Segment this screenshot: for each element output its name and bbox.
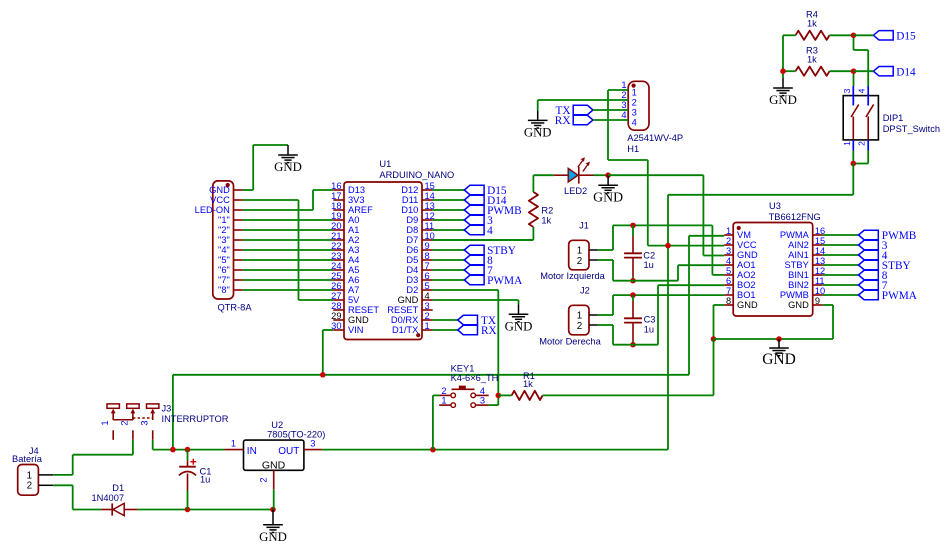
svg-text:D14: D14: [896, 66, 916, 78]
svg-text:INTERRUPTOR: INTERRUPTOR: [162, 414, 229, 424]
node KEY1 junction: [496, 393, 502, 399]
wire: [854, 34, 874, 36]
svg-text:1u: 1u: [644, 325, 654, 335]
connector QTR-8A (J?): [213, 181, 234, 299]
svg-text:27: 27: [331, 291, 341, 301]
svg-text:VM: VM: [737, 230, 751, 240]
node R3-left junction: [780, 68, 786, 74]
svg-text:R2: R2: [541, 206, 553, 216]
net flag D14: [873, 67, 893, 76]
svg-text:25: 25: [331, 271, 341, 281]
svg-text:Motor Derecha: Motor Derecha: [539, 336, 601, 346]
svg-text:4: 4: [857, 88, 867, 93]
svg-text:D15: D15: [896, 30, 916, 42]
net flag 4: [464, 225, 484, 234]
wire: [433, 299, 519, 301]
wire: [613, 280, 678, 282]
svg-text:D10: D10: [401, 205, 418, 215]
wire: [688, 236, 690, 375]
wire: [853, 35, 855, 50]
wire: [830, 70, 854, 72]
wire: [433, 229, 465, 231]
node GND junction: [776, 336, 782, 342]
svg-text:2: 2: [577, 321, 582, 332]
svg-text:28: 28: [331, 301, 341, 311]
svg-text:RESET: RESET: [387, 305, 418, 315]
wire: [243, 249, 334, 251]
svg-text:3: 3: [425, 301, 430, 311]
connector J2: [569, 305, 589, 335]
svg-text:19: 19: [331, 211, 341, 221]
svg-text:VIN: VIN: [348, 325, 364, 335]
wire: [433, 199, 465, 201]
svg-text:8: 8: [425, 251, 430, 261]
svg-text:1k: 1k: [807, 18, 817, 28]
wire: [823, 294, 859, 296]
node VCC junction: [665, 243, 671, 249]
wire: [667, 195, 669, 450]
resistor R4: [796, 31, 830, 40]
svg-text:"7": "7": [218, 275, 230, 285]
svg-text:PWMB: PWMB: [780, 290, 809, 300]
svg-text:4: 4: [621, 110, 626, 120]
node LED2 junction: [605, 172, 611, 178]
ground: [518, 304, 520, 314]
wire: [608, 174, 703, 176]
svg-text:QTR-8A: QTR-8A: [217, 303, 252, 313]
wire: [433, 329, 458, 331]
wire: [433, 209, 465, 211]
node D14 junction: [851, 68, 857, 74]
svg-text:3V3: 3V3: [348, 195, 365, 205]
net flag PWMA: [859, 290, 879, 299]
wire: [152, 440, 154, 450]
svg-text:18: 18: [331, 201, 341, 211]
svg-text:D0/RX: D0/RX: [391, 315, 418, 325]
ground: [782, 78, 784, 88]
resistor R1: [512, 391, 543, 400]
svg-text:1: 1: [726, 226, 731, 236]
wire: [598, 259, 613, 261]
IC U1 ARDUINO_NANO: [344, 182, 422, 340]
svg-text:7805(TO-220): 7805(TO-220): [267, 429, 325, 439]
wire: [243, 259, 334, 261]
svg-text:GND: GND: [209, 185, 230, 195]
svg-text:1k: 1k: [807, 54, 817, 64]
svg-text:"1": "1": [218, 215, 230, 225]
wire: [538, 99, 629, 101]
net flag PWMB: [859, 230, 879, 239]
svg-text:1: 1: [441, 396, 446, 406]
svg-text:A3: A3: [348, 245, 359, 255]
wire: [53, 484, 72, 486]
svg-text:2: 2: [577, 256, 582, 267]
svg-text:D8: D8: [406, 225, 418, 235]
svg-text:H1: H1: [627, 144, 639, 154]
svg-text:1k: 1k: [541, 216, 551, 226]
node VIN junction: [320, 372, 326, 378]
svg-text:3: 3: [726, 246, 731, 256]
net flag TX: [573, 105, 593, 114]
node DIP common junction: [851, 161, 857, 167]
wire: [823, 284, 859, 286]
svg-text:17: 17: [331, 191, 341, 201]
svg-text:3: 3: [310, 439, 315, 449]
wire: [243, 289, 334, 291]
svg-text:STBY: STBY: [785, 260, 809, 270]
svg-text:BIN2: BIN2: [788, 280, 809, 290]
wire: [243, 189, 254, 191]
wire: [489, 404, 499, 406]
wire: [613, 294, 724, 296]
svg-text:"5": "5": [218, 255, 230, 265]
svg-text:C3: C3: [644, 315, 656, 325]
wire: [598, 314, 613, 316]
svg-text:A6: A6: [348, 275, 359, 285]
svg-text:BIN1: BIN1: [788, 270, 809, 280]
svg-text:D11: D11: [402, 195, 418, 205]
svg-text:2: 2: [120, 420, 130, 425]
svg-text:"3": "3": [218, 235, 230, 245]
svg-text:1: 1: [100, 420, 110, 425]
wire: [153, 449, 225, 451]
capacitor C2: [632, 225, 634, 236]
svg-text:A1: A1: [348, 225, 359, 235]
wire VIN rail: [173, 374, 689, 376]
svg-text:7: 7: [726, 286, 731, 296]
switch J3 INTERRUPTOR: [107, 404, 119, 408]
svg-text:ARDUINO_NANO: ARDUINO_NANO: [379, 170, 454, 180]
svg-text:D9: D9: [406, 215, 418, 225]
node D15 junction: [851, 33, 857, 39]
svg-text:D6: D6: [406, 245, 418, 255]
wire: [243, 269, 334, 271]
svg-text:J1: J1: [579, 220, 589, 230]
wire: [533, 174, 553, 176]
svg-text:GND: GND: [348, 315, 369, 325]
svg-text:1: 1: [632, 87, 637, 97]
svg-text:"4": "4": [218, 245, 230, 255]
ground: [287, 145, 289, 155]
svg-text:2: 2: [621, 90, 626, 100]
svg-text:Motor Izquierda: Motor Izquierda: [540, 271, 605, 281]
svg-text:GND: GND: [737, 250, 758, 260]
svg-text:3: 3: [842, 88, 852, 93]
net flag 7: [464, 265, 484, 274]
net flag 3: [464, 215, 484, 224]
wire: [823, 254, 859, 256]
svg-text:D1: D1: [112, 483, 124, 493]
svg-text:GND: GND: [259, 530, 287, 544]
svg-text:4: 4: [726, 256, 731, 266]
svg-text:A2541WV-4P: A2541WV-4P: [627, 133, 683, 143]
svg-text:2: 2: [259, 477, 269, 482]
svg-text:D1/TX: D1/TX: [392, 325, 418, 335]
svg-text:GND: GND: [593, 189, 623, 204]
svg-text:21: 21: [331, 231, 341, 241]
svg-text:24: 24: [331, 261, 341, 271]
svg-text:RX: RX: [481, 325, 497, 337]
wire: [782, 35, 784, 78]
wire: [543, 394, 714, 396]
svg-text:BO1: BO1: [737, 290, 756, 300]
svg-text:D4: D4: [406, 265, 418, 275]
node C3 top junction: [630, 292, 636, 298]
svg-text:5V: 5V: [348, 295, 360, 305]
svg-text:D3: D3: [406, 275, 418, 285]
wire: [867, 151, 869, 164]
net flag 3: [859, 240, 879, 249]
svg-text:RESET: RESET: [348, 305, 379, 315]
wire: [783, 34, 796, 36]
svg-text:D5: D5: [406, 255, 418, 265]
svg-text:3: 3: [621, 100, 626, 110]
svg-text:1u: 1u: [200, 475, 210, 485]
ground: [778, 339, 780, 348]
svg-text:GND: GND: [505, 319, 533, 333]
wire: [532, 175, 534, 192]
svg-text:7: 7: [425, 261, 430, 271]
svg-text:2: 2: [726, 236, 731, 246]
ground: [607, 175, 609, 185]
svg-text:D2: D2: [406, 285, 418, 295]
node junction: [170, 447, 176, 453]
ground: [272, 510, 274, 525]
svg-text:GND: GND: [769, 93, 797, 107]
svg-text:A2: A2: [348, 235, 359, 245]
diode D1: [101, 509, 112, 511]
svg-text:A7: A7: [348, 285, 359, 295]
node 5V-KEY junction: [430, 447, 436, 453]
switch KEY1: [439, 394, 451, 396]
wire: [783, 70, 796, 72]
svg-text:3: 3: [632, 107, 637, 117]
svg-text:"8": "8": [218, 285, 230, 295]
svg-text:16: 16: [331, 181, 341, 191]
wire: [608, 89, 628, 91]
wire: [243, 199, 299, 201]
svg-text:GND: GND: [788, 300, 809, 310]
svg-text:J2: J2: [580, 285, 590, 295]
svg-text:AO2: AO2: [737, 270, 756, 280]
svg-text:4: 4: [487, 225, 493, 237]
svg-text:1k: 1k: [523, 379, 533, 389]
svg-text:3: 3: [480, 396, 485, 406]
wire: [853, 71, 855, 86]
svg-text:9: 9: [815, 296, 820, 306]
net flag PWMA: [464, 275, 484, 284]
svg-text:"2": "2": [218, 225, 230, 235]
wire: [433, 189, 465, 191]
svg-text:26: 26: [331, 281, 341, 291]
svg-text:4: 4: [425, 291, 430, 301]
wire: [243, 219, 334, 221]
svg-text:OUT: OUT: [278, 446, 299, 457]
wire: [823, 304, 833, 306]
svg-text:GND: GND: [737, 300, 758, 310]
net flag RX: [458, 325, 478, 334]
svg-text:D7: D7: [406, 235, 418, 245]
svg-text:LED-ON: LED-ON: [195, 205, 230, 215]
wire 5V rail: [322, 449, 668, 451]
LED LED2: [554, 174, 568, 176]
svg-text:U1: U1: [379, 159, 391, 169]
svg-text:1: 1: [842, 141, 852, 146]
wire: [433, 239, 534, 241]
wire: [498, 394, 511, 396]
svg-text:RX: RX: [555, 115, 571, 127]
wire: [243, 229, 334, 231]
svg-text:2: 2: [441, 386, 446, 396]
node U3 GND junction: [711, 336, 717, 342]
svg-text:BO2: BO2: [737, 280, 756, 290]
wire: [594, 174, 609, 176]
wire: [613, 224, 712, 226]
wire: [823, 234, 859, 236]
svg-text:GND: GND: [762, 351, 796, 368]
svg-text:1: 1: [621, 80, 626, 90]
svg-text:AO1: AO1: [737, 260, 756, 270]
capacitor C3: [632, 295, 634, 301]
connector J1: [569, 240, 589, 269]
wire: [593, 119, 628, 121]
svg-text:1: 1: [231, 439, 236, 449]
svg-text:DIP1: DIP1: [883, 113, 904, 123]
IC U3 TB6612FNG: [733, 223, 813, 317]
svg-text:J3: J3: [162, 404, 172, 414]
svg-text:LED2: LED2: [564, 186, 587, 196]
wire: [532, 227, 534, 240]
wire: [823, 244, 859, 246]
svg-text:5: 5: [425, 281, 430, 291]
svg-text:1N4007: 1N4007: [92, 493, 125, 503]
wire: [593, 109, 628, 111]
wire: [433, 219, 465, 221]
svg-text:VCC: VCC: [210, 195, 230, 205]
wire: [243, 279, 334, 281]
net flag STBY: [464, 245, 484, 254]
svg-text:PWMA: PWMA: [780, 230, 810, 240]
wire: [433, 249, 465, 251]
svg-text:4: 4: [480, 386, 485, 396]
wire: [598, 324, 613, 326]
svg-text:8: 8: [726, 296, 731, 306]
svg-text:TB6612FNG: TB6612FNG: [769, 212, 821, 222]
node C2 bottom junction: [630, 278, 636, 284]
svg-text:AREF: AREF: [348, 205, 373, 215]
switch DIP1: [843, 96, 878, 140]
wire: [323, 329, 334, 331]
wire: [714, 304, 725, 306]
wire: [830, 34, 854, 36]
svg-text:PWMA: PWMA: [882, 290, 918, 302]
wire: [132, 440, 134, 455]
net flag PWMB: [464, 205, 484, 214]
svg-text:20: 20: [331, 221, 341, 231]
net flag RX: [573, 115, 593, 124]
node U2 GND junction: [270, 507, 276, 513]
svg-text:AIN2: AIN2: [788, 240, 809, 250]
resistor R3: [796, 67, 830, 76]
svg-text:GND: GND: [398, 295, 419, 305]
connector H1: [628, 81, 649, 130]
svg-text:D13: D13: [348, 185, 365, 195]
net flag STBY: [859, 260, 879, 269]
svg-text:D12: D12: [401, 185, 418, 195]
net flag D15: [464, 185, 484, 194]
svg-text:6: 6: [425, 271, 430, 281]
wire: [433, 269, 465, 271]
svg-text:2: 2: [632, 97, 637, 107]
net flag 8: [859, 270, 879, 279]
wire: [823, 274, 859, 276]
svg-text:IN: IN: [247, 446, 257, 457]
svg-text:GND: GND: [262, 459, 286, 471]
wire: [613, 344, 658, 346]
node C1 bottom junction: [185, 507, 191, 513]
svg-text:VCC: VCC: [737, 240, 757, 250]
svg-text:C2: C2: [643, 250, 655, 260]
svg-text:1: 1: [425, 321, 430, 331]
resistor R2: [529, 192, 538, 227]
svg-text:DPST_Switch: DPST_Switch: [883, 124, 940, 134]
net flag 4: [859, 250, 879, 259]
wire: [243, 209, 313, 211]
ground: [537, 110, 539, 120]
capacitor C1: [187, 450, 189, 461]
svg-text:2: 2: [27, 481, 32, 492]
svg-text:29: 29: [331, 311, 341, 321]
svg-text:A4: A4: [348, 255, 359, 265]
wire: [433, 289, 499, 291]
net flag TX: [458, 315, 478, 324]
svg-text:22: 22: [331, 241, 341, 251]
wire: [433, 319, 458, 321]
svg-text:U3: U3: [769, 201, 781, 211]
wire: [433, 394, 439, 396]
wire: [273, 489, 275, 509]
svg-text:4: 4: [632, 117, 637, 127]
wire: [598, 249, 613, 251]
svg-text:"6": "6": [218, 265, 230, 275]
svg-text:5: 5: [726, 266, 731, 276]
wire VM: [689, 235, 724, 237]
svg-text:2: 2: [857, 141, 867, 146]
wire: [53, 474, 72, 476]
svg-text:A0: A0: [348, 215, 359, 225]
node C3 bottom junction: [630, 342, 636, 348]
wire: [852, 164, 854, 195]
net flag 8: [464, 255, 484, 264]
net flag D14: [464, 195, 484, 204]
svg-text:PWMA: PWMA: [487, 275, 523, 287]
net flag 7: [859, 280, 879, 289]
wire: [433, 259, 465, 261]
wire: [854, 70, 874, 72]
svg-text:1u: 1u: [644, 260, 654, 270]
wire: [433, 279, 465, 281]
node C2 top junction: [630, 223, 636, 229]
svg-text:GND: GND: [274, 160, 302, 174]
svg-text:3: 3: [139, 420, 149, 425]
svg-text:6: 6: [726, 276, 731, 286]
svg-text:Batería: Batería: [12, 454, 43, 464]
svg-text:9: 9: [425, 241, 430, 251]
svg-text:AIN1: AIN1: [788, 250, 809, 260]
svg-text:GND: GND: [524, 126, 552, 140]
node C1 top junction: [185, 447, 191, 453]
wire: [138, 509, 273, 511]
